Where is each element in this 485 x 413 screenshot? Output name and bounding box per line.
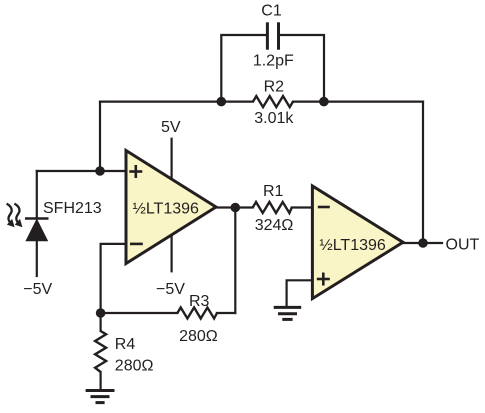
light arrow 1 xyxy=(7,204,15,228)
wire photodiode cathode xyxy=(36,171,38,217)
wire R4 top xyxy=(99,313,101,331)
svg-text:−5V: −5V xyxy=(23,281,52,298)
wire C1 branch left xyxy=(221,35,266,102)
ground below R4 xyxy=(86,391,115,403)
node dot noninverting input xyxy=(95,166,105,176)
wire R1 right to U1b inverting input xyxy=(292,206,313,208)
ground at U1b noninverting input xyxy=(274,307,302,319)
node dot OUT xyxy=(418,238,428,248)
wire photodiode anode to -5V xyxy=(36,241,38,276)
svg-text:C1: C1 xyxy=(261,2,282,19)
wire top feedback rail xyxy=(100,100,253,102)
wire right vertical to OUT node xyxy=(422,102,424,243)
svg-text:324Ω: 324Ω xyxy=(255,217,294,234)
wire inverting input U1a xyxy=(101,244,126,313)
wire U1b output to OUT xyxy=(403,242,442,244)
op-amp U1b xyxy=(312,186,403,299)
svg-text:280Ω: 280Ω xyxy=(179,328,218,345)
op-amp U1a xyxy=(126,151,216,264)
svg-text:R1: R1 xyxy=(263,183,284,200)
wire U1a output to node xyxy=(214,206,253,208)
svg-text:R4: R4 xyxy=(115,336,136,353)
photodiode D1 SFH213 xyxy=(25,219,49,241)
node dot R2 right xyxy=(319,97,329,107)
svg-text:R2: R2 xyxy=(264,78,285,95)
svg-text:5V: 5V xyxy=(161,119,181,136)
wire noninverting input xyxy=(37,170,126,172)
wire output node down to R3 xyxy=(234,208,236,314)
svg-text:SFH213: SFH213 xyxy=(43,200,102,217)
resistor R4 xyxy=(95,331,106,372)
node dot R2 left xyxy=(217,97,227,107)
svg-text:1.2pF: 1.2pF xyxy=(253,53,294,70)
node dot R3 R4 junction xyxy=(96,308,106,318)
wire R4 bottom to ground xyxy=(99,372,101,391)
svg-text:3.01k: 3.01k xyxy=(254,110,294,127)
wire top feedback rail right xyxy=(293,100,423,102)
wire R3 left xyxy=(101,312,178,314)
svg-text:280Ω: 280Ω xyxy=(115,357,154,374)
wire -5V supply pin U1a xyxy=(171,234,173,272)
light arrow 2 xyxy=(14,204,22,228)
svg-text:½LT1396: ½LT1396 xyxy=(319,237,386,254)
wire R3 right xyxy=(217,312,235,314)
resistor R2 xyxy=(253,96,293,107)
wire 5V supply pin U1a xyxy=(171,139,173,181)
svg-text:−5V: −5V xyxy=(156,281,185,298)
svg-text:OUT: OUT xyxy=(446,237,480,254)
resistor R1 xyxy=(253,202,292,213)
resistor R3 xyxy=(177,308,217,319)
capacitor C1 xyxy=(267,22,278,49)
wire left vertical from rail to noninverting node xyxy=(99,102,101,171)
node dot U1a output xyxy=(231,203,241,213)
wire C1 branch right xyxy=(280,35,325,102)
svg-text:½LT1396: ½LT1396 xyxy=(132,200,199,217)
svg-text:R3: R3 xyxy=(189,293,210,310)
wire U1b noninverting to ground xyxy=(287,280,313,307)
